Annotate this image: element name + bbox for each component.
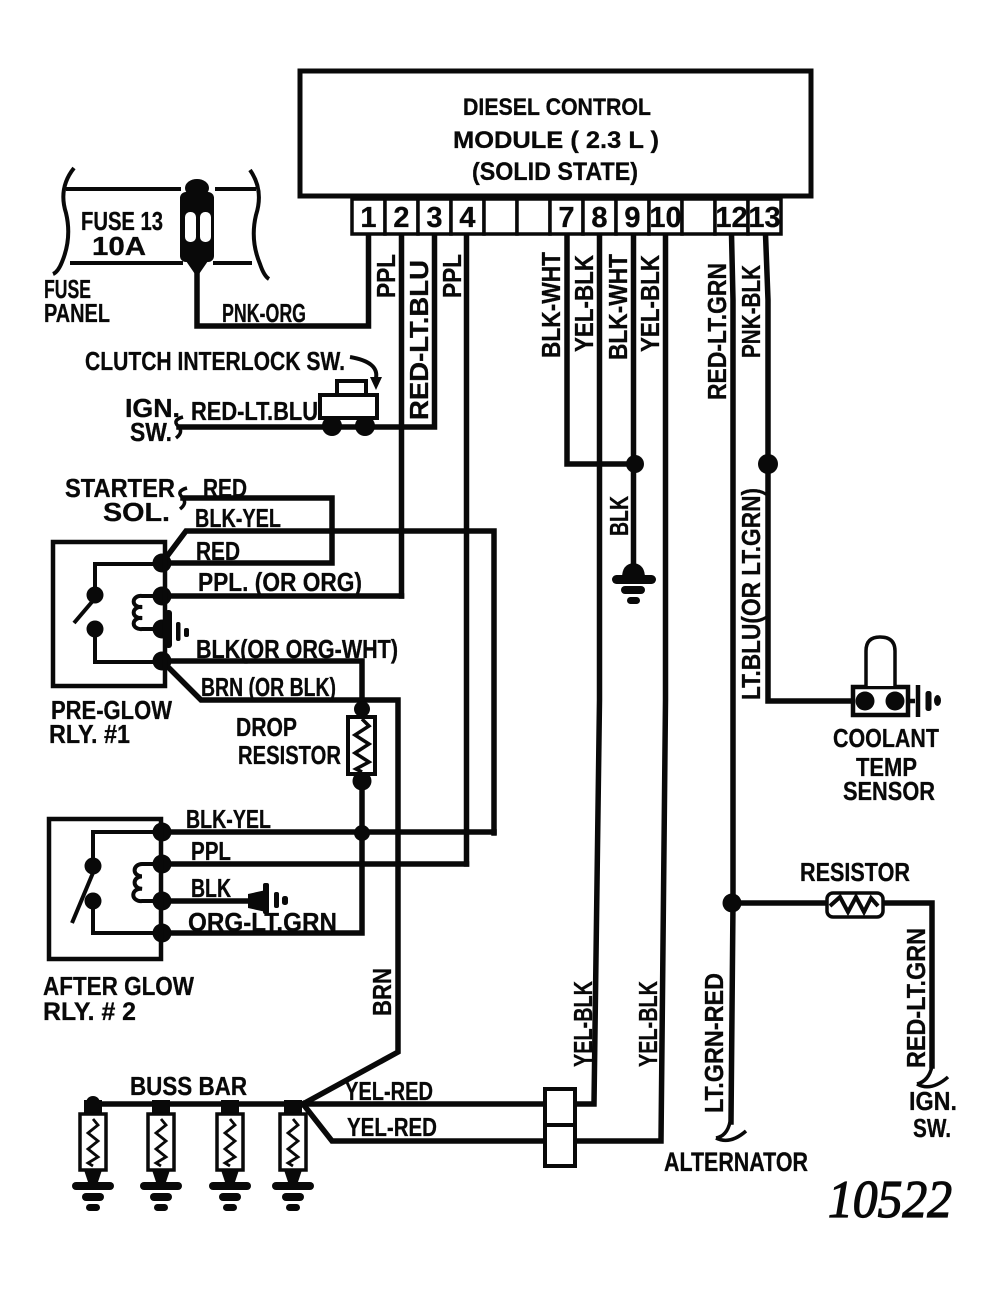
svg-text:PPL: PPL (371, 254, 401, 298)
svg-text:RED: RED (203, 473, 247, 503)
svg-text:DIESEL CONTROL: DIESEL CONTROL (463, 94, 651, 121)
svg-text:RED: RED (196, 536, 240, 566)
svg-text:BRN (OR BLK): BRN (OR BLK) (201, 672, 336, 702)
svg-text:BLK-YEL: BLK-YEL (186, 804, 271, 834)
svg-text:3: 3 (426, 202, 442, 234)
svg-text:IGN.: IGN. (909, 1086, 957, 1116)
svg-text:RLY. # 2: RLY. # 2 (43, 998, 136, 1026)
svg-text:PPL: PPL (437, 254, 467, 298)
svg-text:COOLANT: COOLANT (833, 723, 939, 753)
svg-text:BLK: BLK (191, 873, 231, 903)
svg-text:RED-LT.GRN: RED-LT.GRN (702, 263, 732, 400)
svg-text:YEL-BLK: YEL-BLK (635, 255, 665, 352)
svg-text:CLUTCH INTERLOCK SW.: CLUTCH INTERLOCK SW. (85, 346, 345, 376)
svg-text:7: 7 (558, 202, 574, 234)
svg-text:SW.: SW. (130, 417, 172, 447)
svg-text:BLK-WHT: BLK-WHT (603, 254, 633, 360)
svg-text:AFTER GLOW: AFTER GLOW (43, 971, 194, 1001)
svg-text:9: 9 (624, 202, 640, 234)
svg-text:YEL-BLK: YEL-BLK (568, 981, 598, 1067)
svg-text:MODULE ( 2.3 L ): MODULE ( 2.3 L ) (453, 127, 659, 154)
svg-text:10522: 10522 (828, 1171, 952, 1229)
svg-text:2: 2 (393, 202, 409, 234)
svg-text:SENSOR: SENSOR (843, 776, 935, 806)
svg-text:1: 1 (360, 202, 376, 234)
svg-text:12: 12 (715, 202, 747, 234)
svg-text:YEL-BLK: YEL-BLK (633, 981, 663, 1067)
svg-text:BUSS BAR: BUSS BAR (130, 1071, 247, 1101)
svg-text:RED-LT.BLU: RED-LT.BLU (404, 260, 434, 420)
svg-text:BLK-WHT: BLK-WHT (536, 252, 566, 358)
svg-text:YEL-RED: YEL-RED (345, 1076, 433, 1106)
svg-text:ALTERNATOR: ALTERNATOR (664, 1147, 808, 1177)
svg-text:BRN: BRN (367, 968, 397, 1016)
svg-text:BLK-YEL: BLK-YEL (195, 503, 281, 533)
svg-text:BLK: BLK (604, 496, 634, 536)
svg-text:RED-LT.GRN: RED-LT.GRN (901, 928, 931, 1068)
svg-text:ORG-LT.GRN: ORG-LT.GRN (188, 907, 337, 937)
svg-text:(SOLID STATE): (SOLID STATE) (472, 158, 638, 186)
svg-text:SOL.: SOL. (103, 497, 170, 527)
svg-text:YEL-BLK: YEL-BLK (569, 255, 599, 352)
svg-text:DROP: DROP (236, 712, 297, 742)
svg-text:13: 13 (748, 202, 780, 234)
svg-text:RESISTOR: RESISTOR (238, 740, 341, 770)
svg-text:RED-LT.BLU: RED-LT.BLU (191, 396, 318, 426)
svg-text:RESISTOR: RESISTOR (800, 857, 910, 887)
svg-text:PPL. (OR ORG): PPL. (OR ORG) (198, 567, 362, 597)
svg-text:PANEL: PANEL (44, 298, 110, 328)
svg-text:10A: 10A (92, 231, 146, 261)
svg-text:SW.: SW. (913, 1113, 951, 1143)
svg-text:LT.BLU(OR LT.GRN): LT.BLU(OR LT.GRN) (736, 488, 766, 700)
svg-text:PNK-BLK: PNK-BLK (736, 265, 766, 358)
svg-text:PNK-ORG: PNK-ORG (222, 298, 306, 328)
svg-text:LT.GRN-RED: LT.GRN-RED (699, 973, 729, 1113)
svg-text:BLK(OR ORG-WHT): BLK(OR ORG-WHT) (196, 634, 398, 664)
svg-text:10: 10 (649, 202, 681, 234)
svg-text:4: 4 (459, 202, 475, 234)
svg-text:RLY. #1: RLY. #1 (49, 719, 130, 749)
svg-text:PPL: PPL (191, 836, 231, 866)
svg-text:YEL-RED: YEL-RED (347, 1112, 437, 1142)
svg-text:8: 8 (591, 202, 607, 234)
